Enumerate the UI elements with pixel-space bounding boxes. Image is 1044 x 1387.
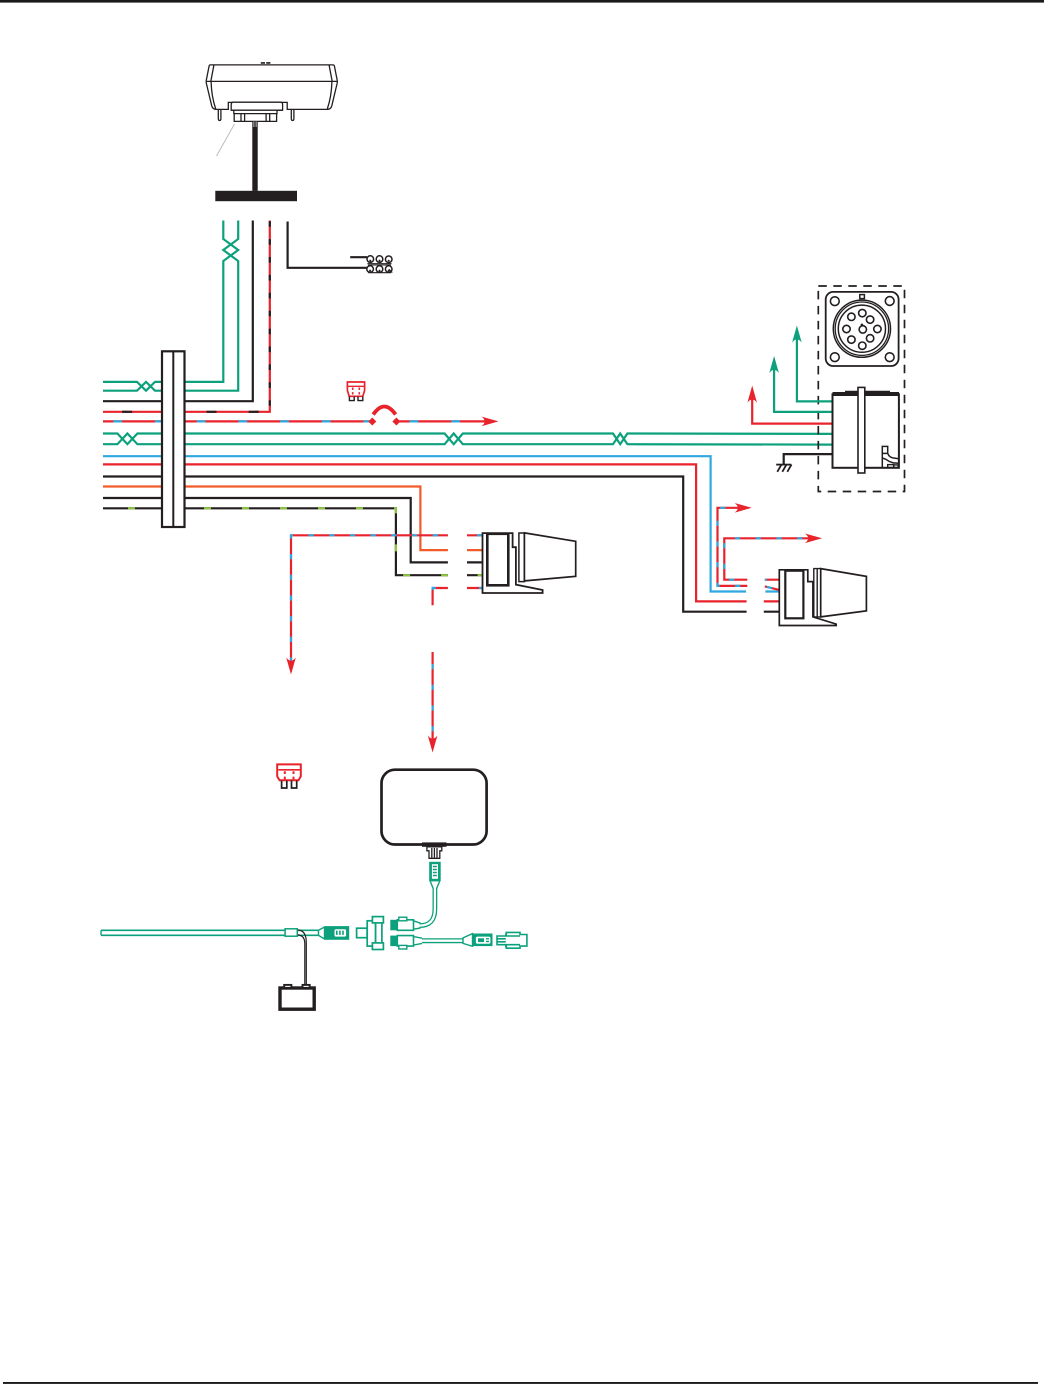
bottom border rule bbox=[3, 1382, 1038, 1384]
wire: red/blue dashed from speaker 2 (long right arrow) bbox=[724, 538, 813, 579]
wire: orange to speaker 1 bbox=[103, 487, 483, 551]
display head unit (chartplotter rear view) bbox=[206, 63, 337, 122]
arrowhead red down bbox=[286, 658, 296, 675]
wire: green arrow up (short) from connector bbox=[774, 365, 833, 412]
sonar module (rounded box) bbox=[382, 770, 487, 845]
drop cable (curved) bbox=[420, 888, 435, 926]
battery bbox=[280, 985, 314, 1009]
wire: red with blue tracer (accessory) with inline fuse jumper bbox=[103, 420, 490, 422]
power drop wires (thin black pair) bbox=[298, 930, 307, 985]
module plug bbox=[427, 847, 442, 859]
backbone male plug into tee bbox=[319, 926, 350, 940]
wire: green arrow up (tall) from connector bbox=[797, 335, 833, 402]
speaker 1 bbox=[483, 533, 576, 593]
arrowhead red right bbox=[482, 417, 499, 427]
fuse arc jumper bbox=[373, 407, 395, 415]
wire: black to speaker 2 bbox=[103, 477, 780, 612]
drop cable connector (green) bbox=[429, 862, 441, 889]
wire: black to speaker 1 bbox=[103, 498, 483, 562]
wire: stub to terminal block top row bbox=[350, 256, 367, 258]
ground symbol bbox=[776, 465, 791, 472]
wire: red with black tracer to head unit bbox=[103, 221, 270, 412]
backbone splice bbox=[285, 929, 297, 936]
mounting bracket base (T-bar) bbox=[215, 191, 297, 201]
wire: black to head unit bbox=[103, 221, 253, 402]
fuse F2 (blade fuse) bbox=[277, 764, 301, 788]
leader line bbox=[217, 124, 235, 156]
mounting bracket stem bbox=[252, 121, 257, 191]
tee bottom-right socket (to extension cable) bbox=[390, 936, 422, 949]
tee top-right socket (to drop cable) bbox=[390, 917, 420, 930]
NMEA connector housing (side view) bbox=[833, 387, 900, 473]
bulkhead pass-through bar bbox=[162, 351, 185, 527]
wire: black ground from connector bbox=[784, 454, 833, 464]
head unit mounting peg left bbox=[218, 110, 221, 121]
terminal block (6 ring terminals) bbox=[367, 256, 392, 273]
NMEA round connector face (flange view) bbox=[826, 292, 899, 366]
head unit mounting peg right bbox=[291, 110, 294, 121]
wire: blue to speaker 2 bbox=[103, 456, 780, 591]
wire: red arrow up from connector bbox=[752, 395, 833, 424]
module bottom connector bar bbox=[422, 842, 447, 846]
mating socket connector (white) bbox=[497, 932, 527, 948]
extension cable plug (green) bbox=[463, 934, 493, 947]
NMEA tee connector bbox=[357, 917, 384, 950]
wire: twisted green backbone pair to connector bbox=[103, 434, 833, 445]
wire: red/blue dashed from speaker 1 bottom (down arrow to module) bbox=[433, 588, 483, 744]
wire: black to terminal block bbox=[288, 222, 367, 268]
wire: twisted green pair to head unit (line 2) bbox=[103, 221, 238, 391]
wire: red/blue dashed to speaker 1 top (down arrow) bbox=[291, 535, 483, 666]
fuse F1 (blade fuse) bbox=[347, 382, 364, 401]
speaker 2 bbox=[779, 569, 866, 626]
wire: red to speaker 2 bbox=[103, 464, 780, 601]
head unit rear connector stack bbox=[231, 102, 282, 121]
dashed outline box (NMEA connector group) bbox=[818, 286, 904, 492]
wire: twisted green pair to head unit (line 1) bbox=[103, 221, 238, 391]
wire: black with green tracer to speaker 1 bbox=[103, 508, 483, 575]
extension cable bbox=[422, 938, 464, 943]
NMEA backbone cable left bbox=[101, 930, 319, 935]
arrowhead red down bbox=[428, 736, 438, 753]
arrowhead red right bbox=[735, 503, 752, 513]
top border rule bbox=[0, 0, 1044, 3]
arrowhead red right bbox=[805, 534, 822, 544]
wire: red/blue dashed from speaker 2 (short right arrow) bbox=[718, 508, 779, 590]
